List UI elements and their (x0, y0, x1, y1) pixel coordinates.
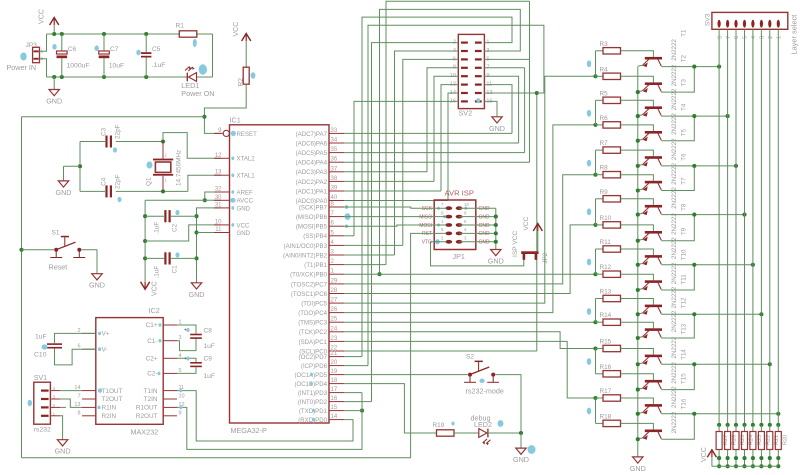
resistor R25 (734, 423, 738, 427)
inversion bubble RESET pin (223, 130, 229, 136)
svg-text:(ADC2)PA2: (ADC2)PA2 (296, 179, 328, 186)
svg-text:1uF: 1uF (35, 334, 47, 341)
IC2 pin markers (98, 388, 102, 392)
capacitor C3 (105, 136, 107, 148)
svg-text:Power ON: Power ON (181, 89, 214, 98)
wire SV2 pin16 to PB4 (354, 101, 458, 235)
node (692, 213, 696, 217)
svg-text:LED2: LED2 (474, 420, 492, 429)
wire (595, 51, 597, 77)
svg-text:GND: GND (46, 97, 62, 106)
svg-text:R1: R1 (176, 23, 185, 30)
svg-text:C6: C6 (68, 46, 77, 53)
wire SV2 pin7 to PA5 (484, 67, 524, 69)
svg-text:13: 13 (215, 170, 222, 176)
switch S1 (54, 248, 58, 252)
svg-text:MEGA32-P: MEGA32-P (231, 426, 268, 435)
resistor R8 (603, 172, 621, 178)
wire vcc(10) row (145, 225, 221, 241)
node (535, 91, 539, 95)
svg-text:VCC: VCC (237, 222, 250, 229)
wire PC1 row to pair8 feed (344, 341, 596, 398)
wire SV1 pin4 to T1OUT (60, 390, 82, 392)
svg-text:T1: T1 (681, 29, 688, 37)
svg-text:(SCK)PB7: (SCK)PB7 (299, 204, 328, 211)
svg-text:7: 7 (726, 36, 732, 39)
connector SV2 body (458, 34, 484, 108)
ground GND at JP1 (491, 250, 501, 256)
svg-text:2: 2 (768, 36, 774, 39)
svg-text:GND: GND (488, 257, 504, 266)
node pair2 feed junction (593, 123, 597, 127)
svg-text:VCC: VCC (233, 22, 240, 37)
svg-text:21: 21 (331, 351, 338, 357)
wire PB4 row (344, 235, 354, 237)
resistor R1 (179, 31, 197, 37)
wire S2 to gnd junction (495, 375, 521, 433)
svg-text:.1uF: .1uF (152, 62, 166, 69)
svg-text:(T1)PB1: (T1)PB1 (304, 262, 327, 269)
svg-text:14: 14 (331, 414, 338, 420)
svg-text:GND: GND (56, 188, 72, 197)
svg-text:GND: GND (89, 281, 105, 290)
wire lower collector riser (661, 215, 694, 241)
svg-text:24: 24 (331, 326, 338, 332)
wire VTG to JP2 (431, 242, 524, 266)
SV1 pads and numbers (41, 390, 49, 392)
SV2 pin pads and numbers (461, 42, 468, 44)
svg-text:R2OUT: R2OUT (136, 413, 158, 420)
svg-text:XTAL2: XTAL2 (237, 156, 256, 163)
svg-text:GND: GND (55, 447, 71, 456)
svg-text:R6: R6 (600, 115, 609, 122)
wire c2 row (145, 215, 164, 217)
resistor R17 (603, 395, 621, 401)
svg-text:.1uF: .1uF (154, 222, 161, 235)
svg-text:T3: T3 (681, 79, 688, 87)
svg-text:IC1: IC1 (230, 116, 241, 125)
svg-text:29: 29 (331, 278, 338, 284)
transistor T10 2N2222 (645, 280, 662, 283)
node (494, 215, 498, 219)
svg-text:rs232-mode: rs232-mode (466, 387, 504, 396)
wire PA3 row (344, 171, 427, 173)
transistor T7 2N2222 (645, 205, 662, 208)
wire SV2 pin9 to PA6 (484, 76, 518, 143)
resistor R7 (603, 147, 621, 153)
svg-text:JP3: JP3 (26, 42, 38, 49)
wire PB0 row to pair5 feed (344, 273, 596, 275)
node (52, 75, 56, 79)
node pair6 feed junction (593, 320, 597, 324)
wire SV1 pin2 stub (60, 406, 66, 408)
svg-text:38: 38 (331, 176, 338, 182)
svg-text:T1OUT: T1OUT (102, 388, 123, 395)
wire (40, 34, 47, 51)
wire reset net to IC1 (204, 84, 246, 133)
wire PD7 row (344, 356, 362, 358)
wire (40, 59, 47, 77)
wire collector bus (661, 165, 736, 167)
wire SCK jog from PB7 (344, 207, 446, 208)
node (692, 362, 696, 366)
transistor T8 2N2222 (645, 231, 662, 234)
svg-text:4: 4 (53, 386, 56, 392)
svg-text:37: 37 (331, 166, 338, 172)
wire SV2 pin5 crossover to PB1 and PA4 (484, 58, 529, 60)
resistor R18 (603, 420, 621, 426)
svg-text:T2: T2 (681, 55, 688, 63)
power net VCC at R2 (242, 34, 251, 42)
node (692, 164, 696, 168)
svg-text:Layer select: Layer select (790, 15, 799, 55)
connector JP3 (33, 47, 40, 62)
wire collector bus (661, 413, 778, 415)
node (360, 409, 364, 413)
svg-text:C10: C10 (34, 352, 47, 359)
wire lower collector riser (661, 364, 694, 389)
svg-text:22pF: 22pF (115, 124, 122, 139)
svg-text:S2: S2 (466, 354, 474, 361)
svg-text:(TCK)PC2: (TCK)PC2 (299, 329, 328, 336)
wire lower collector riser (661, 67, 694, 93)
svg-text:T1IN: T1IN (144, 388, 158, 395)
wire (621, 51, 654, 57)
node (692, 114, 696, 118)
svg-text:2: 2 (53, 403, 56, 409)
node (692, 65, 696, 69)
wire (79, 142, 81, 192)
SV3 pads and numbers (718, 20, 721, 28)
svg-text:C7: C7 (110, 46, 119, 53)
wire (520, 433, 522, 448)
node pair7 feed junction (593, 346, 597, 350)
wire PC7 row to pair3 feed (344, 175, 596, 284)
svg-text:2N2222: 2N2222 (671, 39, 678, 61)
wire PD2 row (344, 401, 372, 403)
power net VCC down arrow (141, 282, 150, 290)
svg-text:26: 26 (331, 307, 338, 313)
wire (621, 349, 654, 355)
wire PC2 row to pair7 feed (344, 332, 596, 349)
resistor R19 (437, 430, 455, 436)
node (692, 412, 696, 416)
wire (595, 199, 597, 225)
svg-text:2N2222: 2N2222 (671, 88, 678, 110)
wire PC5 row to pair1 feed (344, 76, 596, 303)
connector SV1 body (34, 382, 51, 424)
wire PB2 row (344, 254, 395, 256)
wire (47, 33, 180, 35)
node (143, 214, 147, 218)
svg-text:R16: R16 (600, 364, 612, 371)
svg-text:C1-: C1- (147, 338, 157, 345)
svg-text:25: 25 (331, 317, 338, 323)
wire collector bus (661, 313, 761, 315)
resistor R24 (742, 423, 746, 427)
wire (22, 249, 55, 251)
svg-text:R9: R9 (600, 189, 609, 196)
wire PD0 to T1IN (177, 391, 353, 441)
svg-text:2N2222: 2N2222 (671, 64, 678, 86)
svg-text:1uF: 1uF (204, 373, 215, 380)
svg-text:RST: RST (422, 231, 432, 237)
wire SV1 pin3 to R1IN (60, 399, 82, 407)
wire MISO from PB6 (344, 216, 446, 218)
wire (621, 225, 654, 231)
wire (621, 249, 654, 255)
svg-text:VCC: VCC (523, 216, 530, 230)
wire (454, 432, 479, 434)
resistor R20 (776, 423, 780, 427)
svg-text:SCK: SCK (422, 206, 433, 212)
svg-text:RESET: RESET (237, 131, 258, 138)
wire (621, 322, 654, 328)
svg-text:GND: GND (479, 231, 491, 237)
svg-text:T4: T4 (681, 103, 688, 111)
wire c1 row (145, 257, 164, 259)
wire RST long reset net (22, 233, 447, 457)
wire PA4 row (344, 161, 530, 163)
svg-text:2N2222: 2N2222 (671, 187, 678, 209)
wire (488, 432, 521, 434)
svg-text:JP2: JP2 (542, 252, 549, 263)
svg-text:1uF: 1uF (204, 343, 215, 350)
svg-text:27: 27 (331, 298, 338, 304)
resistor R12 (603, 271, 621, 277)
transistor T16 2N2222 (645, 430, 662, 433)
svg-text:32: 32 (215, 187, 222, 193)
svg-text:(TOSC1)PC6: (TOSC1)PC6 (291, 291, 328, 298)
svg-text:40: 40 (331, 195, 338, 201)
wire SV3 column verticals (718, 29, 720, 425)
svg-text:(ADC3)PA3: (ADC3)PA3 (296, 169, 328, 176)
svg-text:34: 34 (331, 138, 338, 144)
wire lower collector riser (661, 314, 694, 338)
svg-text:(ADC6)PA6: (ADC6)PA6 (296, 140, 328, 147)
transistor T4 2N2222 (645, 131, 662, 134)
svg-text:S1: S1 (52, 230, 60, 237)
wire PD3 joins PD1 net (344, 392, 362, 394)
connector SV3 body (712, 12, 788, 29)
svg-text:GND: GND (479, 223, 491, 229)
capacitor C1 (164, 252, 166, 264)
node (161, 139, 165, 143)
svg-text:MISO: MISO (419, 214, 432, 220)
svg-text:rs232: rs232 (34, 427, 51, 434)
wire PC4 row to pair2 feed (344, 125, 596, 313)
wire PC6 row to pair4 feed (344, 225, 596, 294)
svg-text:C2: C2 (172, 223, 179, 232)
svg-text:R12: R12 (600, 264, 612, 271)
svg-text:MAX232: MAX232 (131, 428, 159, 437)
svg-text:VCC: VCC (701, 447, 708, 462)
svg-text:20: 20 (331, 360, 338, 366)
wire (197, 76, 213, 78)
resistor R10 (603, 222, 621, 228)
node emitter junctions (636, 90, 640, 94)
jumper JP2 (521, 251, 538, 254)
node reset junction (202, 115, 206, 119)
wire reset net long vertical (22, 116, 205, 118)
resistor R21 (768, 423, 772, 427)
resistor R27 (717, 423, 721, 427)
svg-text:C4: C4 (100, 177, 107, 186)
svg-text:C1+: C1+ (146, 322, 158, 329)
svg-text:R13: R13 (600, 289, 612, 296)
transistor T1 2N2222 (645, 57, 662, 60)
node (377, 272, 381, 276)
svg-text:17: 17 (331, 387, 338, 393)
svg-text:14.7456MHz: 14.7456MHz (176, 150, 183, 186)
svg-text:GND: GND (237, 230, 251, 237)
wire PA2 row (344, 180, 434, 182)
wire avcc row (145, 199, 221, 201)
transistor T5 2N2222 (645, 156, 662, 159)
wire SV2 pin4 to PB2 (395, 51, 459, 255)
svg-text:T5: T5 (681, 128, 688, 136)
svg-text:C2-: C2- (147, 371, 157, 378)
connector JP1 AVR ISP body (434, 200, 476, 250)
svg-text:VCC: VCC (39, 9, 46, 24)
svg-text:(SS)PB4: (SS)PB4 (303, 233, 327, 240)
svg-text:GND: GND (513, 455, 529, 464)
resistor R14 (603, 319, 621, 325)
wire collector bus (661, 264, 753, 266)
svg-text:T15: T15 (681, 373, 688, 384)
svg-text:C8: C8 (204, 328, 213, 335)
svg-text:Q1: Q1 (146, 177, 153, 186)
svg-text:(ADC5)PA5: (ADC5)PA5 (296, 150, 328, 157)
crystal Q1 (162, 142, 164, 159)
wire SV2 pin2 to PD2 (372, 43, 459, 402)
wire (595, 299, 597, 323)
svg-text:19: 19 (331, 369, 338, 375)
svg-text:GND: GND (489, 124, 505, 133)
svg-text:R10: R10 (600, 215, 612, 222)
wire (621, 398, 654, 404)
switch S2 (468, 373, 472, 377)
svg-text:T13: T13 (681, 323, 688, 334)
transistor T11 2N2222 (645, 305, 662, 308)
svg-text:GND: GND (237, 205, 251, 212)
svg-text:(INT1)PD3: (INT1)PD3 (298, 390, 328, 397)
svg-text:R19: R19 (433, 422, 445, 429)
wire PD4 row to R19 (344, 384, 437, 433)
svg-text:(TDI)PC5: (TDI)PC5 (301, 301, 327, 308)
svg-text:(MOSI)PB5: (MOSI)PB5 (296, 224, 328, 231)
wire SV2 pin13 to PC0 (484, 93, 536, 351)
IC2 left pins (82, 332, 96, 334)
ground GND decoupling (191, 283, 201, 289)
wire (621, 299, 654, 305)
wire (595, 150, 597, 175)
wire PA7 row (344, 132, 512, 134)
svg-text:SV2: SV2 (459, 109, 473, 118)
svg-text:.1uF: .1uF (154, 266, 161, 279)
svg-text:23: 23 (331, 336, 338, 342)
capacitor C4 (105, 185, 107, 197)
svg-text:2N2222: 2N2222 (671, 336, 678, 358)
svg-text:(ADC1)PA1: (ADC1)PA1 (296, 188, 328, 195)
svg-text:ISP VCC: ISP VCC (512, 230, 519, 257)
svg-text:1: 1 (53, 411, 56, 417)
svg-text:3: 3 (760, 36, 766, 39)
node (19, 248, 23, 252)
svg-text:9: 9 (179, 410, 182, 416)
svg-text:2N2222: 2N2222 (671, 411, 678, 433)
svg-text:15: 15 (331, 405, 338, 411)
svg-text:1000uF: 1000uF (67, 62, 90, 69)
transistor T3 2N2222 (645, 106, 662, 109)
capacitor C5 (145, 34, 147, 52)
wire SV1 pin1 to GND (60, 416, 62, 440)
wire SV2 pin13 to PD6 via top level (368, 25, 544, 365)
node (161, 189, 165, 193)
svg-text:T12: T12 (681, 297, 688, 308)
wire PA5 row (344, 152, 525, 154)
svg-text:(MISO)PB6: (MISO)PB6 (296, 214, 328, 221)
svg-text:28: 28 (331, 288, 338, 294)
wire (595, 349, 597, 374)
svg-text:R15: R15 (600, 339, 612, 346)
resistor R15 (603, 345, 621, 351)
svg-text:JP1: JP1 (453, 252, 465, 261)
svg-text:T9: T9 (681, 227, 688, 235)
wire PD6 row (344, 365, 368, 367)
svg-text:GND: GND (479, 240, 491, 246)
svg-text:GND: GND (630, 464, 646, 473)
svg-text:R20: R20 (782, 435, 788, 445)
wire xtal1 net (80, 190, 105, 192)
wire collector bus (661, 214, 744, 216)
ground GND crystal (58, 181, 68, 187)
wire lower collector riser (661, 414, 694, 439)
svg-text:T7: T7 (681, 177, 688, 185)
IC1 left pin stubs and names (214, 132, 223, 134)
svg-text:R4: R4 (600, 66, 609, 73)
svg-text:(AIN0/INT2)PB2: (AIN0/INT2)PB2 (283, 252, 328, 259)
wire lower collector riser (661, 166, 694, 191)
capacitor C7 (103, 34, 105, 51)
resistor R6 (603, 122, 621, 128)
svg-text:18: 18 (331, 378, 338, 384)
resistor R2 (243, 67, 249, 84)
ground GND at SV1 (57, 440, 67, 446)
svg-text:T8: T8 (681, 203, 688, 211)
wire SV2 pin6 to PB3 (403, 59, 459, 245)
svg-text:V+: V+ (102, 331, 110, 338)
wire gnd(31) row (197, 208, 222, 283)
svg-text:(TOSC2)PC7: (TOSC2)PC7 (291, 281, 328, 288)
node (52, 32, 56, 36)
power net VCC symbol (50, 18, 59, 26)
node (78, 164, 82, 168)
wire (621, 150, 654, 156)
wire PB3 row (344, 244, 403, 246)
ground GND at SV2 (492, 117, 502, 123)
wire lower collector riser (661, 265, 694, 290)
wire collector bus (661, 363, 770, 365)
capacitor C10 (47, 343, 62, 345)
svg-text:1: 1 (777, 36, 783, 39)
svg-text:MOSI: MOSI (419, 223, 432, 229)
capacitor C8 (177, 325, 196, 334)
svg-text:SV1: SV1 (34, 375, 47, 382)
svg-text:2N2222: 2N2222 (671, 362, 678, 384)
svg-text:IC2: IC2 (149, 306, 160, 315)
node pair1 feed junction (593, 74, 597, 78)
